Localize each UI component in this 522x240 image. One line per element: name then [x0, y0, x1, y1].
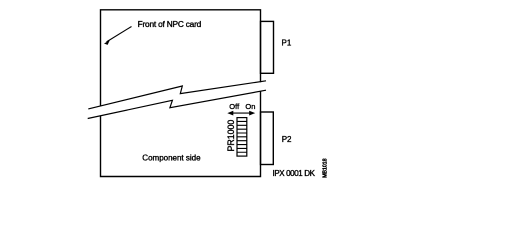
break line lower	[88, 90, 266, 118]
svg-text:Off: Off	[229, 102, 240, 111]
Off/On double arrow line	[231, 112, 253, 114]
connector P2	[261, 112, 274, 165]
svg-text:On: On	[245, 102, 255, 111]
svg-text:MB1018: MB1018	[322, 158, 328, 177]
connector P1	[261, 21, 274, 73]
svg-text:PR1000: PR1000	[226, 120, 236, 152]
break line upper	[88, 81, 266, 109]
switch PR1000 rungs	[237, 121, 247, 152]
card outline top half	[101, 10, 261, 107]
Off/On arrowhead right	[249, 111, 255, 116]
Off/On arrowhead left	[227, 111, 233, 116]
switch PR1000 body	[237, 118, 247, 157]
svg-text:IPX 0001 DK: IPX 0001 DK	[273, 169, 316, 178]
card outline bottom half	[101, 92, 261, 177]
svg-text:Front of NPC card: Front of NPC card	[138, 19, 202, 29]
leader arrowhead	[104, 40, 110, 45]
svg-text:Component side: Component side	[142, 153, 201, 162]
leader line to card front	[107, 27, 132, 42]
svg-text:P1: P1	[282, 39, 292, 48]
svg-text:P2: P2	[282, 135, 292, 144]
